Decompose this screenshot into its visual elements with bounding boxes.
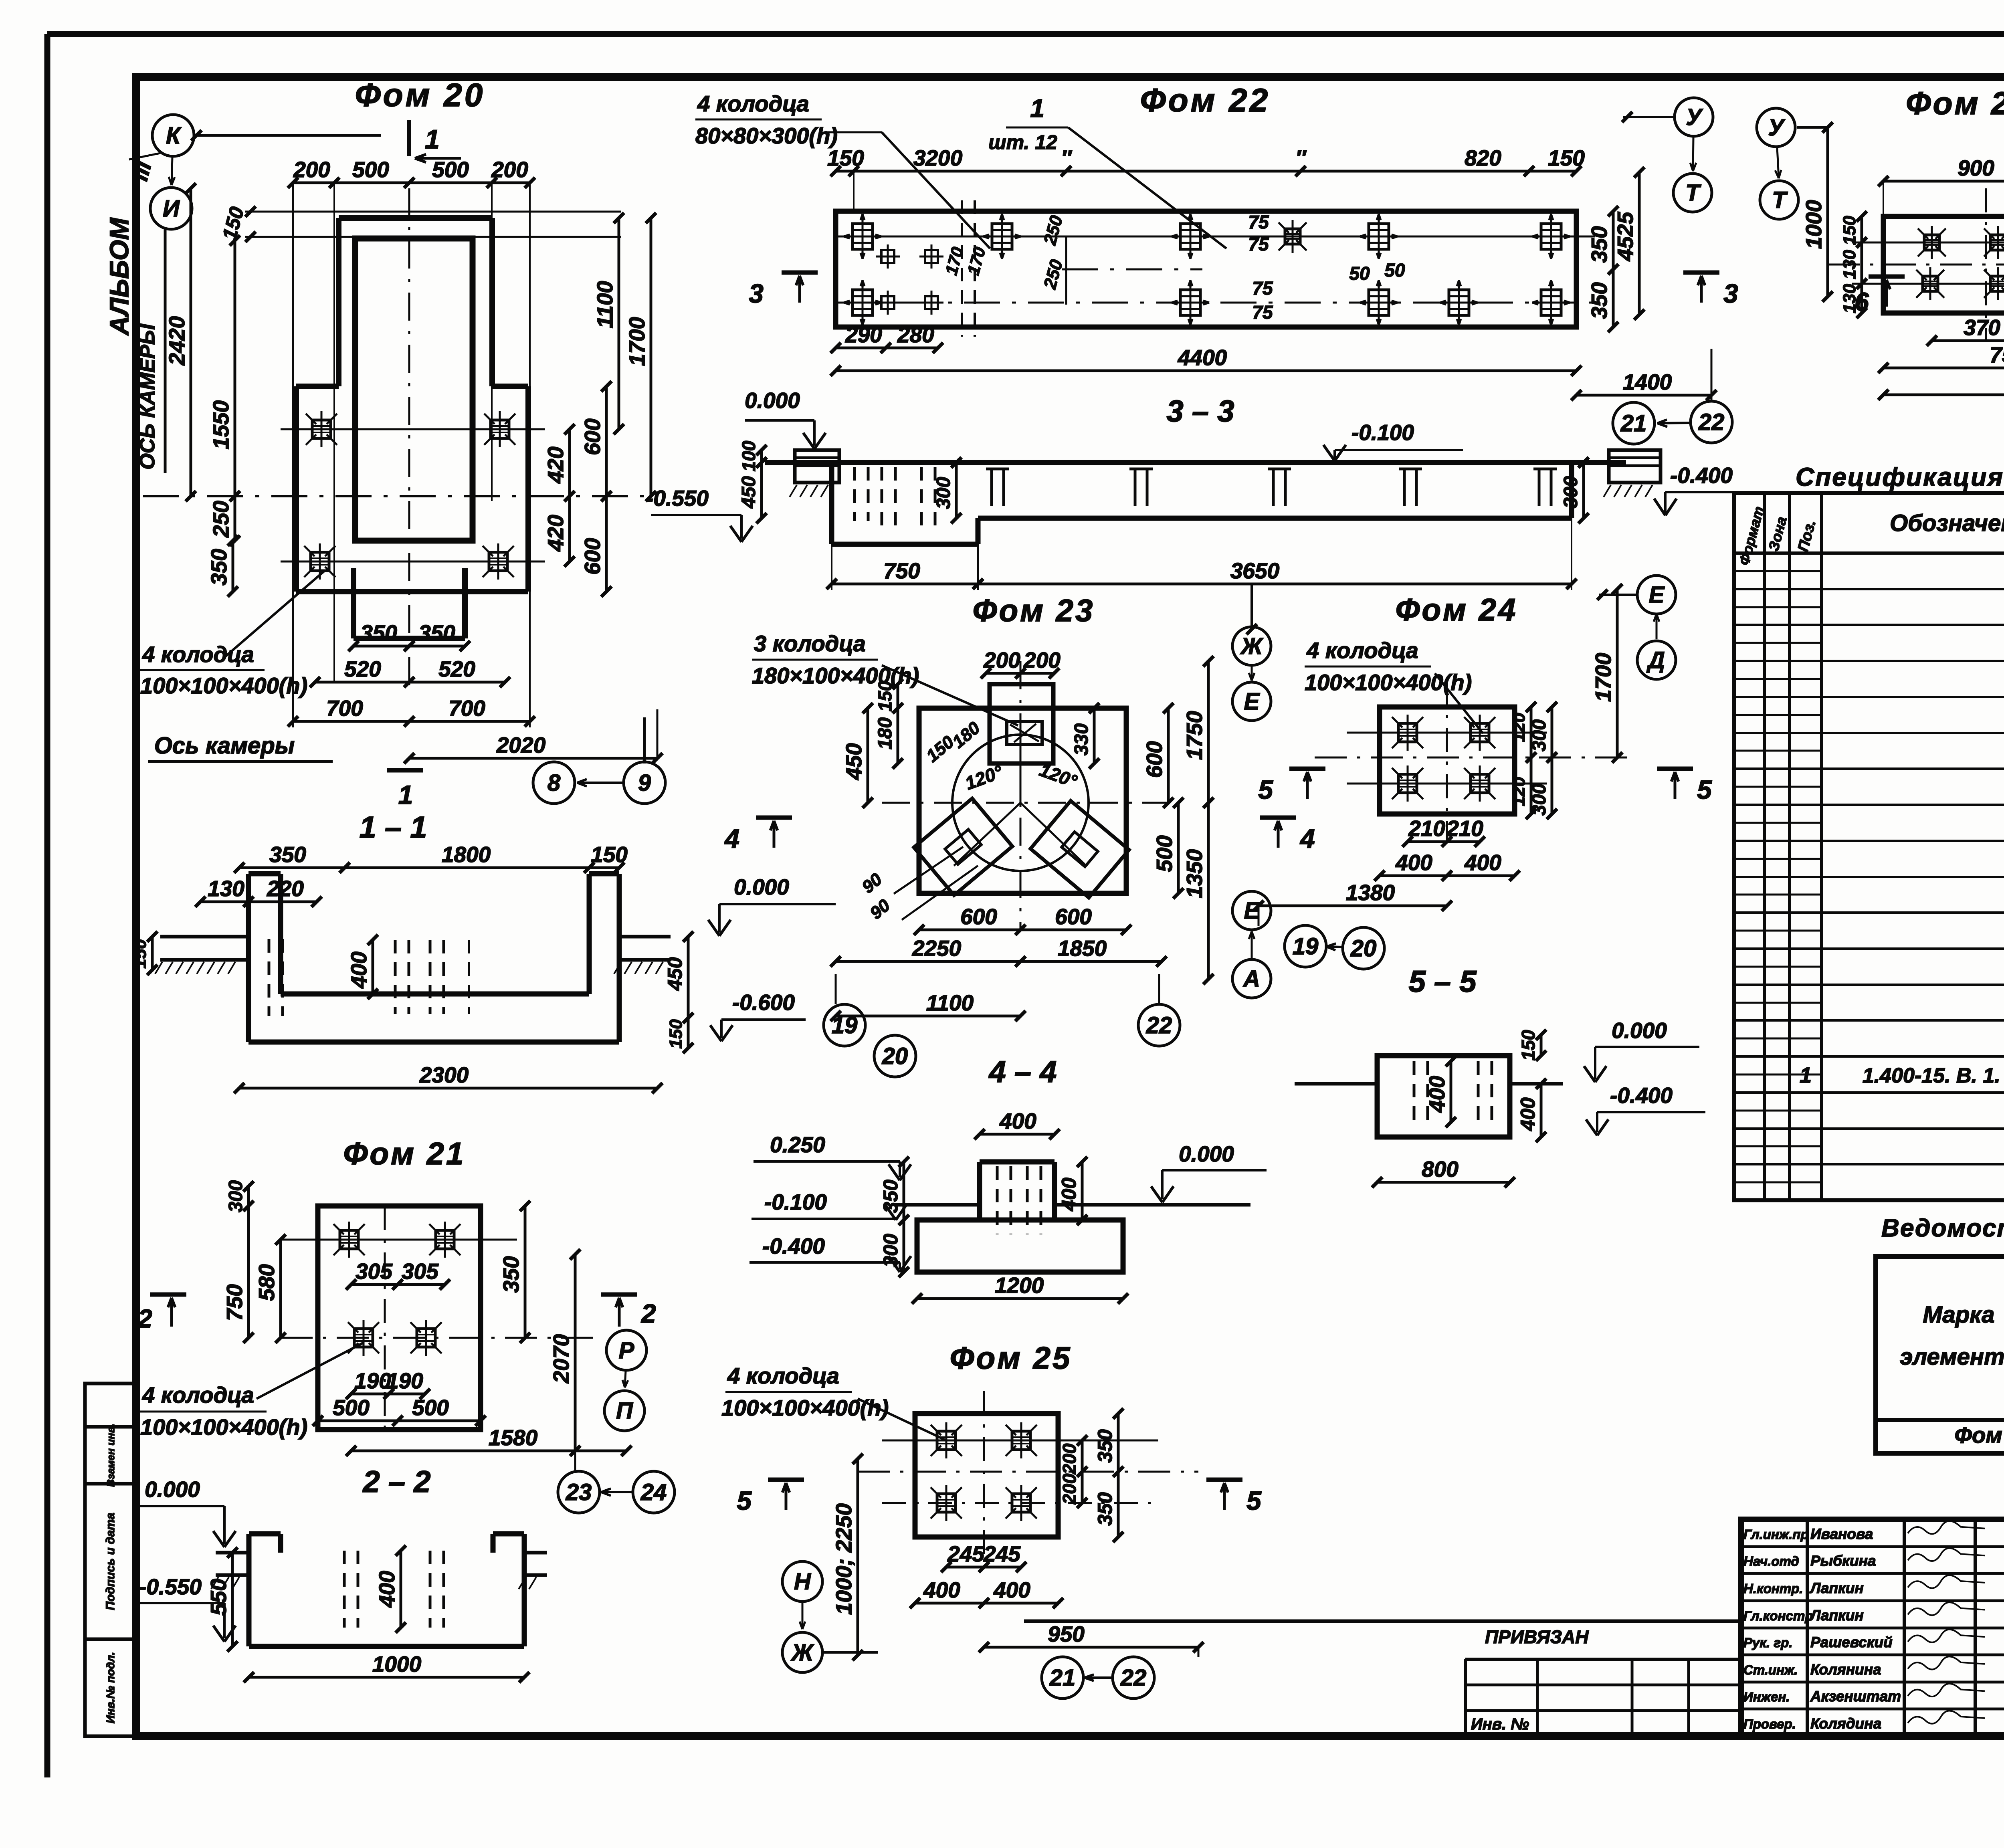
svg-text:Лапкин: Лапкин: [1809, 1580, 1864, 1596]
svg-text:300: 300: [879, 1234, 902, 1267]
svg-text:1400: 1400: [1623, 370, 1672, 394]
svg-text:2420: 2420: [164, 316, 189, 366]
svg-text:400: 400: [999, 1109, 1036, 1133]
svg-text:120: 120: [1509, 713, 1529, 742]
svg-text:0.000: 0.000: [734, 875, 789, 899]
svg-text:2 – 2: 2 – 2: [362, 1465, 430, 1499]
svg-text:22: 22: [1698, 409, 1725, 435]
svg-text:500: 500: [412, 1395, 449, 1420]
svg-text:1: 1: [425, 124, 440, 154]
svg-text:Взамен инв.: Взамен инв.: [105, 1424, 117, 1487]
svg-text:5: 5: [1697, 775, 1712, 804]
svg-text:700: 700: [448, 696, 485, 721]
svg-text:4400: 4400: [1178, 345, 1227, 370]
svg-text:4 колодца: 4 колодца: [1306, 638, 1418, 663]
svg-text:600: 600: [960, 904, 997, 929]
svg-text:1800: 1800: [442, 842, 491, 867]
svg-text:200: 200: [983, 648, 1020, 673]
svg-text:420: 420: [543, 515, 568, 552]
svg-text:8: 8: [547, 770, 561, 796]
svg-text:1700: 1700: [624, 317, 649, 366]
svg-text:АЛЬБОМ: АЛЬБОМ: [104, 217, 134, 336]
svg-text:Е: Е: [1244, 689, 1261, 715]
svg-text:330: 330: [1071, 723, 1092, 755]
svg-text:300: 300: [933, 477, 954, 509]
svg-text:Н: Н: [794, 1569, 811, 1595]
svg-text:Обозначение: Обозначение: [1890, 510, 2004, 536]
svg-text:Ж: Ж: [1240, 633, 1264, 659]
svg-text:Фом 22: Фом 22: [1140, 82, 1271, 119]
svg-text:420: 420: [543, 446, 568, 484]
svg-text:600: 600: [1055, 904, 1092, 929]
svg-text:300: 300: [225, 1180, 246, 1212]
svg-text:-0.400: -0.400: [1670, 463, 1733, 488]
svg-text:500: 500: [333, 1395, 370, 1420]
svg-text:750: 750: [222, 1284, 247, 1321]
svg-text:350: 350: [206, 549, 231, 586]
svg-text:5 – 5: 5 – 5: [1408, 965, 1477, 999]
svg-text:4 – 4: 4 – 4: [988, 1055, 1057, 1089]
svg-text:-0.400: -0.400: [762, 1234, 825, 1258]
svg-text:Провер.: Провер.: [1743, 1717, 1796, 1731]
svg-text:3: 3: [749, 279, 764, 308]
svg-text:120: 120: [1509, 777, 1529, 806]
svg-text:150: 150: [1840, 216, 1859, 245]
svg-text:220: 220: [267, 876, 304, 901]
svg-text:210: 210: [1408, 816, 1445, 841]
svg-text:150: 150: [591, 842, 628, 867]
svg-text:20: 20: [1350, 935, 1377, 961]
svg-text:2020: 2020: [496, 733, 546, 757]
svg-text:4525: 4525: [1613, 211, 1638, 261]
svg-text:И: И: [163, 196, 180, 222]
svg-text:1000: 1000: [1801, 200, 1826, 249]
svg-text:3 – 3: 3 – 3: [1166, 394, 1234, 428]
svg-text:1000; 2250: 1000; 2250: [831, 1503, 856, 1615]
svg-text:1100: 1100: [592, 281, 617, 328]
svg-text:750: 750: [883, 558, 920, 583]
svg-text:5: 5: [1246, 1486, 1262, 1515]
svg-text:Фом 25: Фом 25: [950, 1340, 1072, 1375]
svg-text:1580: 1580: [489, 1425, 538, 1450]
svg-text:1380: 1380: [1346, 880, 1395, 905]
svg-text:24: 24: [640, 1479, 667, 1505]
svg-text:245: 245: [983, 1541, 1021, 1566]
svg-text:300: 300: [1529, 784, 1550, 816]
svg-text:150: 150: [1548, 145, 1585, 170]
svg-text:ОСЬ КАМЕРЫ: ОСЬ КАМЕРЫ: [136, 323, 159, 469]
svg-text:У: У: [1686, 104, 1703, 130]
svg-text:3: 3: [1723, 279, 1738, 308]
svg-text:400: 400: [346, 951, 371, 989]
svg-text:1700: 1700: [1591, 652, 1616, 702]
svg-text:0.000: 0.000: [745, 388, 800, 413]
svg-text:400: 400: [1424, 1076, 1449, 1113]
svg-text:750: 750: [1990, 342, 2004, 367]
svg-text:-0.400: -0.400: [1610, 1083, 1673, 1108]
svg-text:1550: 1550: [208, 400, 233, 449]
svg-text:3 колодца: 3 колодца: [754, 631, 866, 656]
svg-text:Лапкин: Лапкин: [1809, 1607, 1864, 1624]
svg-text:19: 19: [1293, 933, 1319, 959]
svg-text:19: 19: [832, 1012, 858, 1038]
svg-text:Фом 23: Фом 23: [973, 593, 1095, 628]
svg-text:305: 305: [402, 1259, 439, 1284]
svg-text:250: 250: [208, 501, 233, 538]
svg-text:4 колодца: 4 колодца: [697, 91, 809, 116]
svg-text:1350: 1350: [1182, 849, 1207, 898]
svg-text:350: 350: [360, 620, 397, 645]
svg-text:1: 1: [398, 780, 413, 810]
svg-text:3650: 3650: [1230, 558, 1280, 583]
svg-text:75: 75: [1248, 212, 1269, 232]
svg-text:350: 350: [499, 1256, 523, 1293]
svg-text:Т: Т: [1685, 180, 1701, 206]
svg-text:75: 75: [1248, 234, 1269, 254]
svg-text:130: 130: [1840, 250, 1859, 279]
svg-text:21: 21: [1620, 410, 1647, 436]
svg-text:шт. 12: шт. 12: [988, 131, 1057, 153]
svg-text:4 колодца: 4 колодца: [727, 1363, 839, 1388]
svg-text:150: 150: [666, 1019, 686, 1049]
svg-text:Инв. №: Инв. №: [1471, 1715, 1529, 1733]
svg-text:П: П: [616, 1398, 633, 1424]
svg-text:2: 2: [137, 1304, 152, 1333]
svg-text:5: 5: [1258, 775, 1273, 804]
svg-text:400: 400: [1395, 850, 1432, 875]
svg-text:400: 400: [993, 1577, 1030, 1602]
svg-text:Акзенштат: Акзенштат: [1810, 1688, 1901, 1705]
svg-text:200: 200: [1059, 1443, 1080, 1474]
svg-text:520: 520: [344, 656, 381, 681]
svg-text:600: 600: [1142, 741, 1167, 778]
svg-text:370: 370: [1964, 315, 2000, 340]
svg-text:450: 450: [738, 476, 760, 509]
svg-text:У: У: [1768, 115, 1785, 141]
svg-text:190: 190: [354, 1368, 391, 1393]
svg-text:50: 50: [1384, 260, 1405, 281]
svg-text:Р: Р: [619, 1337, 634, 1363]
svg-text:-0.550: -0.550: [646, 486, 709, 511]
svg-text:Д: Д: [1646, 647, 1665, 673]
svg-text:0.000: 0.000: [145, 1477, 200, 1502]
svg-text:Рашевский: Рашевский: [1810, 1634, 1893, 1650]
svg-text:75: 75: [1252, 278, 1273, 299]
svg-text:Рук. гр.: Рук. гр.: [1743, 1635, 1792, 1650]
svg-text:190: 190: [386, 1368, 423, 1393]
svg-text:Ст.инж.: Ст.инж.: [1743, 1662, 1798, 1677]
svg-text:Н.контр.: Н.контр.: [1743, 1581, 1803, 1596]
svg-text:-0.100: -0.100: [1351, 420, 1414, 445]
svg-text:700: 700: [326, 696, 363, 721]
svg-text:-0.550: -0.550: [139, 1574, 202, 1599]
svg-text:400: 400: [1058, 1177, 1080, 1212]
svg-text:Е: Е: [1649, 582, 1665, 608]
svg-text:2250: 2250: [912, 936, 962, 961]
svg-text:100×100×400(h): 100×100×400(h): [721, 1395, 889, 1420]
svg-text:1 – 1: 1 – 1: [359, 810, 427, 844]
svg-text:350: 350: [1587, 282, 1612, 319]
svg-text:22: 22: [1146, 1012, 1172, 1038]
svg-text:600: 600: [580, 538, 605, 575]
svg-text:К: К: [166, 123, 182, 149]
svg-text:4: 4: [1299, 824, 1315, 853]
svg-text:-0.600: -0.600: [732, 990, 795, 1015]
svg-text:400: 400: [1517, 1097, 1539, 1131]
svg-text:50: 50: [1349, 263, 1370, 284]
svg-text:400: 400: [1464, 850, 1501, 875]
svg-text:500: 500: [432, 157, 469, 182]
svg-text:100×100×400(h): 100×100×400(h): [140, 1414, 307, 1440]
svg-text:Инв.№ подл.: Инв.№ подл.: [104, 1652, 117, 1723]
svg-text:100×100×400(h): 100×100×400(h): [140, 673, 307, 698]
svg-text:450: 450: [664, 957, 686, 991]
svg-text:150: 150: [1518, 1030, 1539, 1060]
svg-text:200: 200: [293, 157, 330, 182]
svg-text:Фом 22: Фом 22: [1954, 1422, 2004, 1448]
svg-text:элемента: элемента: [1900, 1344, 2004, 1370]
svg-text:Гл.констр: Гл.констр: [1743, 1608, 1813, 1623]
svg-text:Ось камеры: Ось камеры: [154, 733, 295, 759]
svg-text:4 колодца: 4 колодца: [142, 1382, 254, 1408]
svg-text:″: ″: [1295, 145, 1307, 170]
svg-text:300: 300: [1560, 476, 1582, 508]
svg-text:Фом 21: Фом 21: [343, 1136, 466, 1171]
svg-text:Гл.инж.пр: Гл.инж.пр: [1743, 1527, 1809, 1542]
svg-text:80×80×300(h): 80×80×300(h): [695, 123, 838, 148]
svg-text:ПРИВЯЗАН: ПРИВЯЗАН: [1485, 1626, 1589, 1647]
svg-text:9: 9: [638, 770, 651, 796]
svg-text:400: 400: [374, 1571, 399, 1608]
svg-text:130: 130: [208, 876, 244, 901]
svg-text:1750: 1750: [1182, 711, 1207, 760]
svg-text:Нач.отд: Нач.отд: [1743, 1554, 1799, 1569]
svg-text:Колянина: Колянина: [1810, 1661, 1881, 1678]
svg-text:600: 600: [580, 418, 605, 455]
svg-text:″: ″: [1061, 145, 1073, 170]
svg-text:6: 6: [1855, 287, 1869, 316]
svg-text:75: 75: [1252, 302, 1273, 323]
svg-text:900: 900: [1958, 156, 1994, 180]
svg-text:150: 150: [130, 939, 150, 969]
svg-text:150: 150: [875, 681, 895, 711]
svg-text:Фом 20: Фом 20: [355, 77, 485, 113]
svg-text:Рыбкина: Рыбкина: [1810, 1553, 1876, 1569]
svg-text:0.000: 0.000: [1612, 1018, 1667, 1043]
svg-text:300: 300: [1529, 719, 1550, 751]
svg-text:200: 200: [1059, 1473, 1080, 1505]
svg-text:Ж: Ж: [790, 1640, 814, 1666]
svg-text:2070: 2070: [549, 1334, 574, 1383]
svg-text:200: 200: [1023, 648, 1061, 673]
svg-text:Фом 24: Фом 24: [1396, 592, 1518, 627]
svg-text:180: 180: [875, 717, 896, 749]
svg-text:1000: 1000: [372, 1652, 422, 1676]
svg-text:350: 350: [269, 842, 306, 867]
svg-text:4: 4: [724, 824, 739, 853]
svg-text:2: 2: [640, 1299, 656, 1328]
svg-text:3200: 3200: [913, 145, 963, 170]
svg-text:350: 350: [1094, 1429, 1116, 1463]
svg-text:290: 290: [845, 322, 882, 347]
svg-text:305: 305: [356, 1259, 393, 1284]
svg-text:23: 23: [566, 1479, 592, 1505]
svg-text:20: 20: [882, 1043, 908, 1069]
svg-text:0.000: 0.000: [1179, 1141, 1234, 1166]
svg-text:Подпись и дата: Подпись и дата: [104, 1513, 117, 1610]
svg-text:1850: 1850: [1058, 936, 1107, 961]
svg-text:22: 22: [1120, 1665, 1147, 1691]
svg-text:Ведомость расхода стали на: Ведомость расхода стали на элемент, кг: [1881, 1214, 2004, 1242]
svg-text:1: 1: [1800, 1063, 1812, 1087]
svg-text:1: 1: [1030, 94, 1044, 123]
svg-text:Инжен.: Инжен.: [1743, 1689, 1790, 1704]
svg-text:500: 500: [1152, 835, 1177, 872]
svg-text:950: 950: [1048, 1622, 1085, 1646]
svg-text:1.400-15. В. 1. 120-08: 1.400-15. В. 1. 120-08: [1863, 1064, 2004, 1087]
svg-text:21: 21: [1049, 1665, 1076, 1691]
svg-text:А: А: [1242, 966, 1260, 992]
svg-text:0.250: 0.250: [770, 1132, 825, 1157]
svg-text:1100: 1100: [926, 990, 974, 1015]
svg-text:350: 350: [1094, 1492, 1116, 1526]
svg-text:520: 520: [438, 656, 475, 681]
svg-text:820: 820: [1465, 145, 1501, 170]
svg-text:Иванова: Иванова: [1810, 1526, 1873, 1542]
svg-text:150: 150: [827, 145, 864, 170]
svg-text:5: 5: [737, 1486, 752, 1515]
svg-text:Спецификация: Спецификация: [1796, 463, 2004, 491]
svg-text:450: 450: [841, 743, 866, 780]
svg-text:580: 580: [254, 1264, 279, 1301]
svg-text:1200: 1200: [995, 1273, 1044, 1298]
svg-text:200: 200: [491, 157, 528, 182]
svg-text:210: 210: [1446, 816, 1483, 841]
svg-text:350: 350: [1587, 226, 1612, 263]
svg-text:Колядина: Колядина: [1810, 1715, 1881, 1732]
svg-text:245: 245: [947, 1541, 985, 1566]
svg-text:350: 350: [879, 1179, 902, 1213]
svg-text:400: 400: [923, 1577, 960, 1602]
svg-text:Фом 26: Фом 26: [1906, 85, 2004, 121]
svg-text:550: 550: [206, 1579, 231, 1616]
svg-text:Т: Т: [1772, 187, 1788, 213]
svg-text:280: 280: [897, 322, 934, 347]
svg-text:2300: 2300: [419, 1062, 469, 1087]
svg-text:350: 350: [418, 620, 455, 645]
svg-text:800: 800: [1422, 1157, 1459, 1182]
svg-text:500: 500: [352, 157, 389, 182]
svg-text:Марка: Марка: [1923, 1302, 1994, 1328]
svg-text:-0.100: -0.100: [764, 1190, 827, 1214]
